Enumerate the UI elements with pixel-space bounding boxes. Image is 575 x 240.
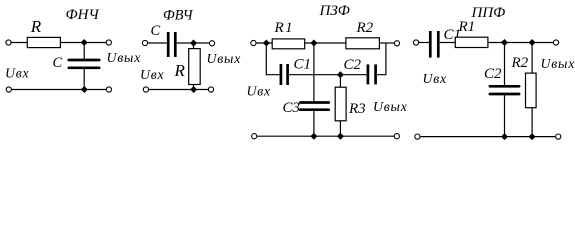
wire C to output terminal — [177, 42, 209, 44]
svg-text:C: C — [53, 55, 63, 71]
output terminal (top right) — [394, 41, 399, 46]
svg-text:ПЗФ: ПЗФ — [319, 3, 350, 19]
resistor R1 — [455, 37, 488, 47]
resistor R — [189, 49, 201, 85]
capacitor C1 — [430, 31, 438, 58]
wire R to output terminal — [60, 42, 105, 44]
node junction bottom — [81, 86, 88, 93]
wire C2 down to bottom rail — [504, 95, 506, 136]
capacitor C3 — [300, 103, 328, 110]
node junction top — [81, 39, 88, 46]
output terminal (top right) — [553, 40, 558, 45]
bottom rail wire — [12, 89, 106, 91]
resistor R — [27, 37, 60, 47]
capacitor C2 — [490, 86, 519, 94]
resistor R3 — [335, 87, 346, 121]
svg-text:R3: R3 — [348, 101, 366, 117]
resistor R2 — [526, 73, 537, 108]
output terminal (bottom right) — [208, 87, 213, 92]
input terminal (bottom left) — [6, 87, 11, 92]
svg-text:C2: C2 — [344, 57, 362, 73]
wire C1 to R1 — [440, 42, 456, 44]
output terminal (bottom right) — [106, 87, 111, 92]
wire R2 to output terminal — [379, 42, 394, 44]
capacitor C2 — [368, 64, 376, 84]
svg-text:Uвых: Uвых — [207, 51, 242, 66]
resistor R2 — [346, 38, 380, 49]
output terminal (top right) — [209, 41, 214, 46]
node A junction — [263, 40, 270, 47]
node junction R2-top — [529, 39, 536, 46]
wire junction down to R2 — [531, 43, 533, 74]
bottom rail wire — [149, 89, 208, 91]
input terminal (bottom left) — [415, 134, 420, 139]
node junction top — [190, 40, 197, 47]
svg-text:R1: R1 — [274, 20, 295, 36]
resistor R1 — [272, 39, 305, 49]
svg-text:C2: C2 — [484, 66, 502, 82]
wire terminal to C1 — [419, 42, 429, 44]
wire R2 down to bottom rail — [531, 108, 533, 137]
node junction C3-bottom — [310, 133, 317, 140]
wire junction down to C — [83, 43, 85, 60]
wire node M down to C3 — [313, 43, 315, 101]
svg-text:Uвых: Uвых — [541, 56, 575, 71]
svg-text:C: C — [151, 23, 161, 39]
svg-text:ППФ: ППФ — [471, 5, 506, 21]
node M junction (R mid) — [310, 40, 317, 47]
C rail wire C1 to C2 — [289, 74, 367, 76]
capacitor C1 — [281, 64, 288, 85]
input terminal (bottom left) — [252, 134, 257, 139]
capacitor C — [69, 60, 99, 68]
svg-text:R1: R1 — [458, 19, 476, 35]
wire R1 to R2 — [305, 42, 346, 44]
node junction R3-bottom — [337, 133, 344, 140]
wire C down to bottom rail — [83, 69, 85, 90]
svg-text:Uвых: Uвых — [107, 50, 142, 65]
svg-text:R2: R2 — [356, 20, 374, 36]
wire terminal to R — [11, 42, 27, 44]
svg-text:Uвх: Uвх — [5, 66, 30, 81]
wire C2 up to output wire — [377, 43, 386, 75]
svg-text:Uвх: Uвх — [247, 84, 272, 99]
input terminal (top left) — [251, 40, 256, 45]
input terminal (top left) — [413, 40, 418, 45]
bottom rail wire — [257, 135, 394, 137]
svg-text:ФВЧ: ФВЧ — [163, 8, 194, 24]
wire terminal to C — [148, 42, 167, 44]
wire node A down to C rail — [266, 43, 279, 75]
svg-text:Uвх: Uвх — [423, 71, 448, 86]
wire R1 to output terminal — [488, 42, 553, 44]
input terminal (top left) — [6, 40, 11, 45]
wire node M' down to R3 — [339, 75, 341, 88]
svg-text:R2: R2 — [511, 55, 529, 71]
wire junction down to R — [193, 43, 195, 49]
capacitor C — [168, 32, 175, 57]
bottom rail wire — [420, 136, 555, 138]
svg-text:R: R — [30, 17, 42, 36]
node junction C2-bottom — [501, 133, 508, 140]
output terminal (bottom right) — [394, 134, 399, 139]
wire terminal to R1 — [256, 42, 272, 44]
wire junction down to C2 — [504, 43, 506, 86]
output terminal (bottom right) — [556, 134, 561, 139]
svg-text:Uвых: Uвых — [373, 99, 408, 114]
node junction R2-bottom — [529, 133, 536, 140]
output terminal (top right) — [106, 40, 111, 45]
svg-text:C3: C3 — [283, 100, 301, 116]
node M' junction (C mid) — [337, 71, 344, 78]
node junction bottom — [190, 86, 197, 93]
svg-text:R: R — [174, 61, 186, 80]
svg-text:Uвх: Uвх — [140, 67, 165, 82]
svg-text:C1: C1 — [294, 57, 312, 73]
svg-text:ФНЧ: ФНЧ — [66, 7, 101, 23]
node junction C2-top — [501, 39, 508, 46]
input terminal (top left) — [142, 40, 147, 45]
wire R3 down to bottom rail — [339, 121, 341, 136]
wire R down to bottom rail — [193, 85, 195, 90]
wire C3 down to bottom rail — [313, 111, 315, 136]
input terminal (bottom left) — [143, 87, 148, 92]
